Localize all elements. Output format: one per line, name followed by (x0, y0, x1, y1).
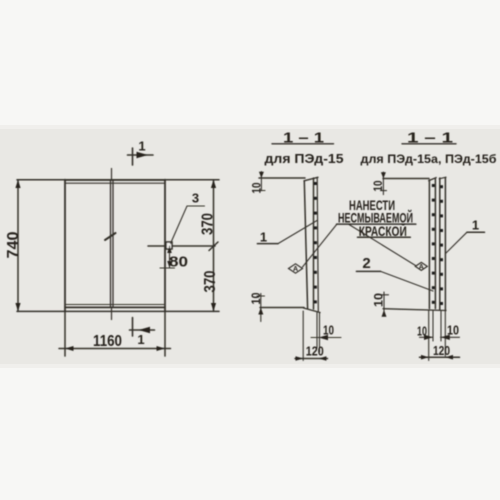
svg-text:370: 370 (202, 270, 219, 292)
svg-text:120: 120 (306, 345, 324, 359)
svg-text:10: 10 (447, 323, 459, 338)
svg-text:10: 10 (251, 183, 263, 194)
svg-text:для ПЭд-15: для ПЭд-15 (265, 152, 344, 166)
svg-text:1: 1 (260, 230, 267, 245)
svg-text:1: 1 (137, 332, 144, 347)
svg-text:1: 1 (138, 139, 145, 154)
svg-text:1 – 1: 1 – 1 (283, 131, 324, 147)
svg-text:80: 80 (169, 254, 188, 271)
svg-text:2: 2 (362, 255, 370, 272)
svg-text:3: 3 (192, 191, 199, 206)
svg-text:10: 10 (323, 323, 334, 338)
svg-text:10: 10 (373, 181, 385, 192)
svg-text:НЕСМЫВАЕМОЙ: НЕСМЫВАЕМОЙ (338, 209, 413, 226)
svg-text:КРАСКОЙ: КРАСКОЙ (359, 224, 407, 239)
svg-text:А: А (419, 264, 424, 271)
svg-text:А: А (293, 266, 298, 273)
svg-text:1 – 1: 1 – 1 (407, 131, 453, 147)
svg-text:120: 120 (433, 344, 450, 358)
svg-text:для ПЭд-15а, ПЭд-15б: для ПЭд-15а, ПЭд-15б (361, 152, 497, 166)
svg-text:10: 10 (251, 293, 263, 305)
svg-text:10: 10 (374, 293, 386, 307)
svg-text:1: 1 (472, 218, 479, 233)
svg-text:370: 370 (200, 213, 217, 235)
svg-text:740: 740 (5, 231, 22, 258)
svg-text:10: 10 (417, 324, 427, 339)
svg-text:1160: 1160 (93, 333, 122, 350)
